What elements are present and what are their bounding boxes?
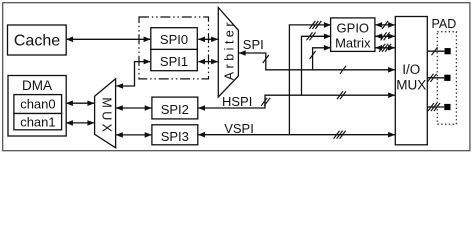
svg-text:SPI1: SPI1 [160, 54, 188, 69]
svg-text:SPI3: SPI3 [161, 129, 189, 144]
svg-text:GPIO: GPIO [337, 21, 370, 36]
svg-text:PAD: PAD [432, 17, 457, 31]
svg-text:Matrix: Matrix [335, 36, 371, 51]
svg-text:MUX: MUX [396, 77, 426, 92]
svg-text:Arbiter: Arbiter [223, 19, 237, 80]
svg-text:SPI0: SPI0 [160, 32, 188, 47]
svg-text:Cache: Cache [14, 33, 60, 50]
svg-text:VSPI: VSPI [224, 121, 254, 136]
svg-text:I/O: I/O [402, 62, 420, 77]
svg-text:chan0: chan0 [20, 97, 55, 112]
svg-text:SPI2: SPI2 [161, 102, 189, 117]
svg-text:DMA: DMA [22, 78, 52, 93]
svg-text:SPI: SPI [243, 37, 264, 52]
svg-text:MUX: MUX [99, 97, 113, 135]
svg-text:chan1: chan1 [20, 114, 55, 129]
svg-text:HSPI: HSPI [222, 94, 252, 109]
